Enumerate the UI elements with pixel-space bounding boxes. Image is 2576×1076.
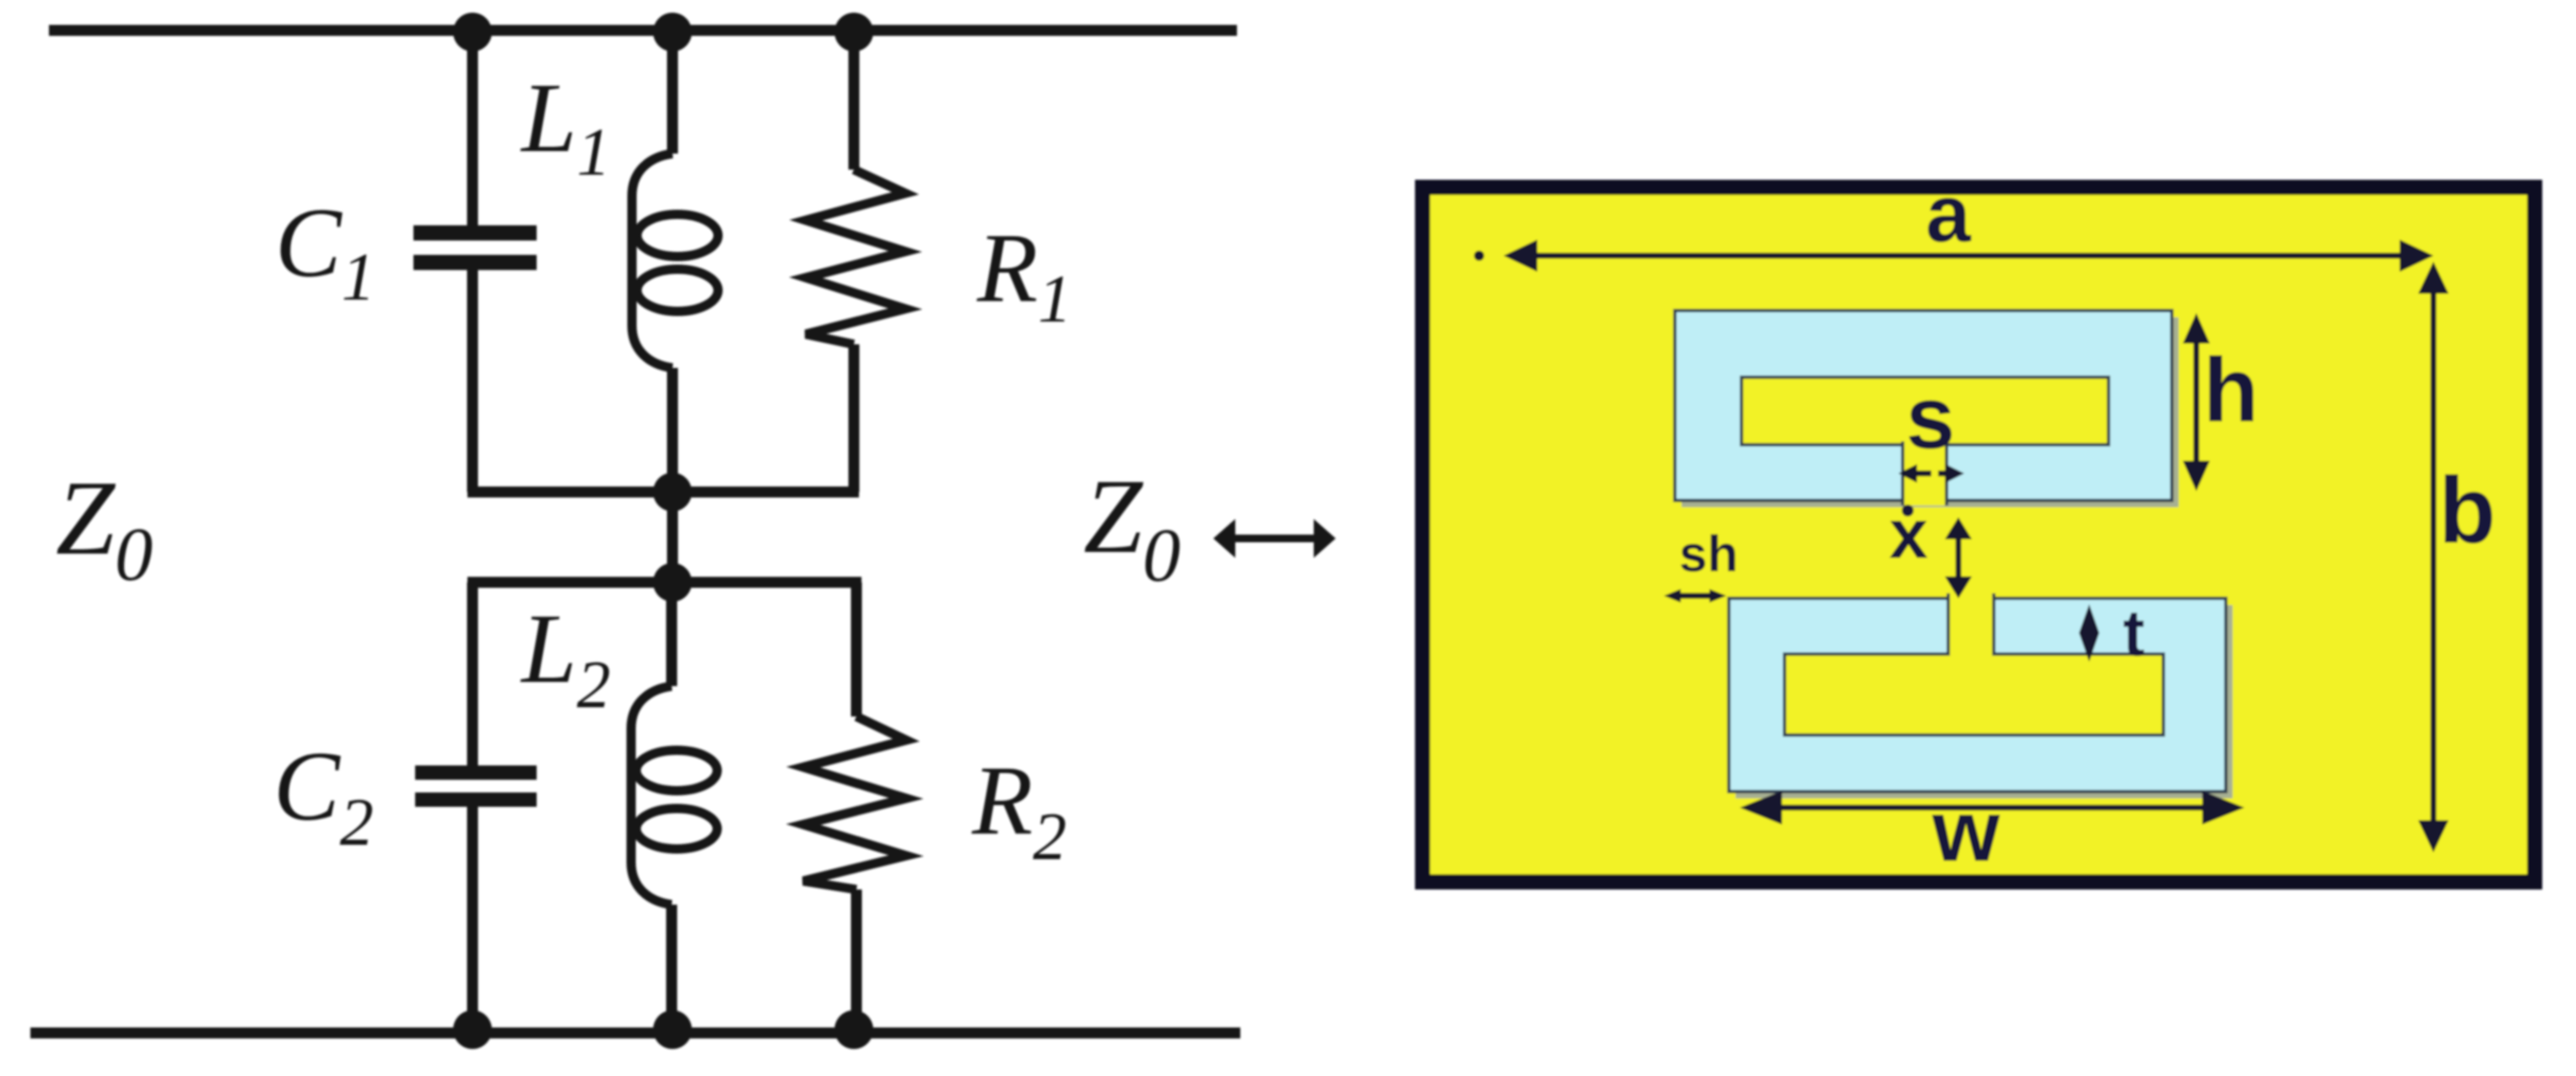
svg-text:sh: sh: [1679, 526, 1738, 582]
svg-text:w: w: [1931, 782, 2001, 879]
svg-text:b: b: [2438, 458, 2496, 563]
svg-text:s: s: [1906, 369, 1955, 468]
svg-text:h: h: [2203, 338, 2259, 441]
svg-text:a: a: [1925, 169, 1971, 259]
svg-text:t: t: [2123, 596, 2145, 670]
